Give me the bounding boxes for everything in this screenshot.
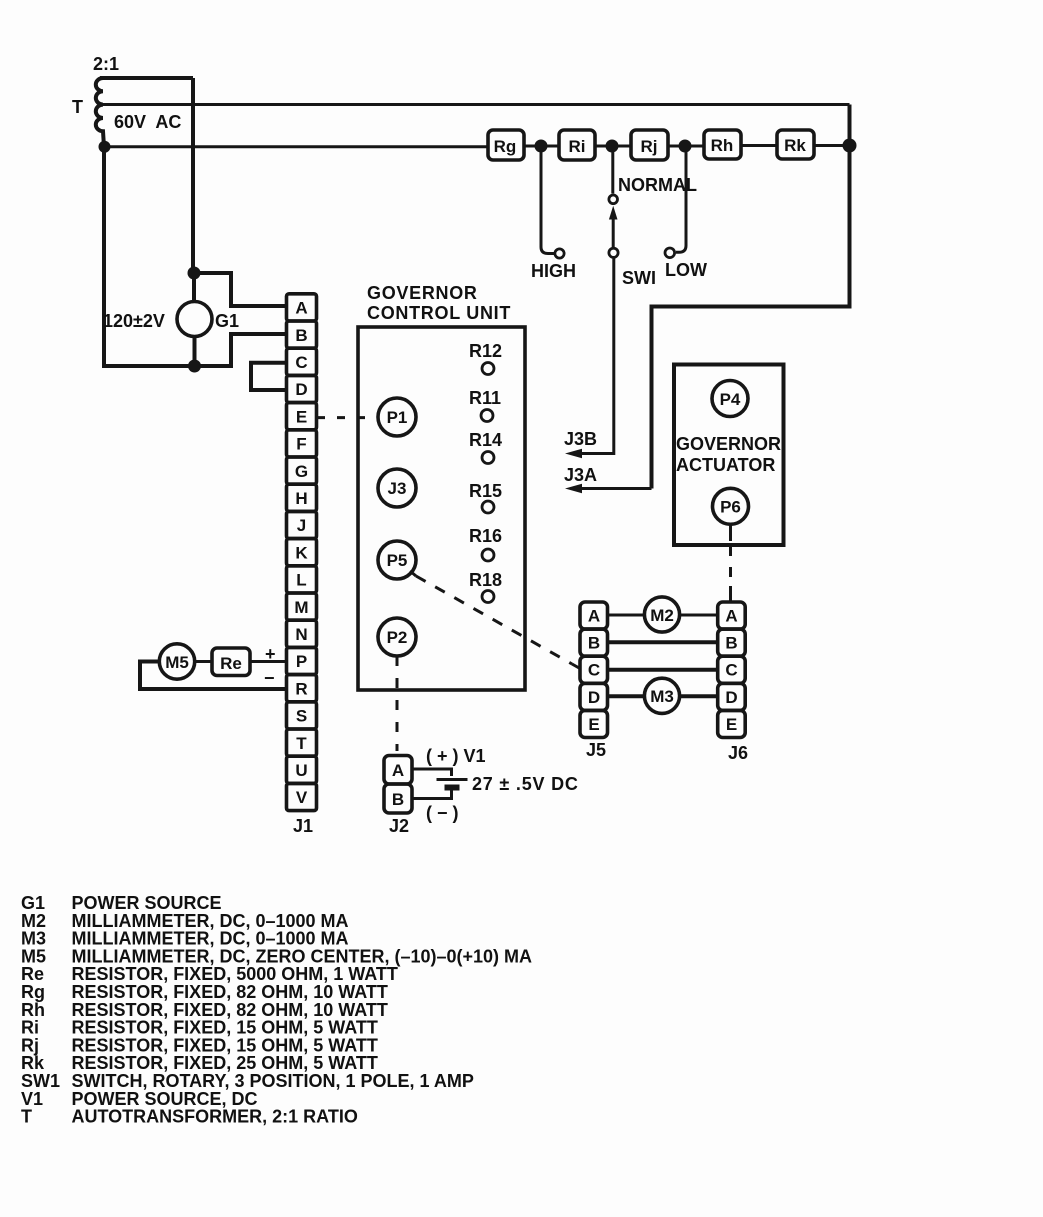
svg-text:GOVERNOR: GOVERNOR — [367, 283, 478, 303]
svg-text:AUTOTRANSFORMER, 2:1 RATIO: AUTOTRANSFORMER, 2:1 RATIO — [72, 1107, 358, 1127]
contact HIGH — [555, 249, 564, 258]
wire G1 bottom to J1-B — [195, 334, 287, 366]
svg-text:J6: J6 — [728, 743, 748, 763]
svg-text:T: T — [296, 734, 307, 753]
connector J6 strip — [718, 602, 746, 738]
wire J2-A to battery — [412, 769, 452, 776]
svg-text:R: R — [295, 679, 307, 698]
junction dot G1 bottom — [188, 360, 201, 373]
wire M2 to J6-A — [680, 614, 718, 617]
switch SW1 wiper line — [612, 217, 615, 248]
wire M5 left loop to J1-R — [140, 662, 286, 690]
junction dot LOW branch — [679, 140, 692, 153]
wire J2-B to battery — [412, 791, 452, 799]
wire Rj to Rh — [668, 145, 704, 148]
svg-text:+: + — [265, 644, 276, 664]
wire dashed P6 to J6-A — [729, 546, 732, 584]
junction dot G1 top — [188, 267, 201, 280]
wire M5 to Re — [195, 660, 212, 663]
svg-text:A: A — [588, 607, 600, 626]
switch SW1 wiper arrow — [609, 206, 618, 220]
svg-text:SWI: SWI — [622, 268, 656, 288]
svg-text:D: D — [588, 688, 600, 707]
svg-text:B: B — [588, 634, 600, 653]
svg-text:LOW: LOW — [665, 260, 707, 280]
battery V1 positive plate — [437, 778, 468, 781]
wire HIGH branch — [541, 146, 554, 254]
svg-text:M2: M2 — [650, 606, 674, 625]
wire G1 bottom lead — [193, 337, 197, 367]
connector P6 — [713, 488, 749, 524]
svg-text:J5: J5 — [586, 740, 606, 760]
svg-text:B: B — [725, 634, 737, 653]
terminal strip J1 — [287, 294, 317, 811]
wire M3 to J6-D — [680, 694, 718, 698]
wire dashed P5 to J5-C — [410, 571, 416, 576]
svg-text:Rk: Rk — [784, 136, 806, 155]
connector J5 strip — [580, 602, 608, 738]
svg-text:J: J — [297, 516, 306, 535]
wire J5-D to M3 — [608, 694, 645, 698]
junction dot HIGH branch — [535, 140, 548, 153]
contact NORMAL — [609, 195, 618, 204]
switch SW1 wire down to J3B — [578, 258, 614, 454]
connector P5 — [378, 541, 416, 579]
wire Re to J1-P — [250, 660, 286, 663]
wire J5-B to J6-B — [608, 640, 718, 644]
svg-text:R15: R15 — [469, 481, 502, 501]
svg-text:R16: R16 — [469, 526, 502, 546]
svg-text:R18: R18 — [469, 570, 502, 590]
resistor Rh — [704, 130, 741, 159]
svg-text:R11: R11 — [469, 388, 501, 408]
wire dashed P2 to J2-A — [396, 656, 399, 751]
svg-text:U: U — [295, 761, 307, 780]
wire J5-C to J6-C — [608, 668, 718, 672]
wire bottom winding line to Rg — [104, 145, 487, 148]
svg-text:P: P — [296, 652, 307, 671]
svg-text:A: A — [392, 761, 404, 780]
jumper wire J1 C to D — [251, 363, 286, 390]
svg-text:T: T — [72, 97, 83, 117]
svg-text:P6: P6 — [720, 498, 741, 517]
svg-text:27 ± .5V DC: 27 ± .5V DC — [472, 774, 579, 794]
svg-text:L: L — [296, 571, 306, 590]
svg-text:B: B — [295, 326, 307, 345]
svg-text:H: H — [295, 489, 307, 508]
resistor Rk — [777, 130, 814, 159]
generator G1 — [177, 302, 212, 337]
svg-text:F: F — [296, 435, 306, 454]
connector P1 — [378, 398, 416, 436]
svg-text:( − ): ( − ) — [426, 803, 459, 823]
governor actuator box — [674, 365, 784, 546]
svg-text:G1: G1 — [215, 311, 239, 331]
governor control unit box — [358, 327, 525, 690]
svg-text:GOVERNOR: GOVERNOR — [676, 434, 781, 454]
svg-text:Re: Re — [220, 654, 242, 673]
svg-text:Rg: Rg — [494, 137, 517, 156]
battery V1 negative plate — [445, 785, 460, 791]
resistor Re — [212, 648, 250, 676]
svg-text:E: E — [726, 715, 737, 734]
contact SW1 lower — [609, 248, 618, 257]
milliammeter M5 — [159, 644, 194, 679]
wire Rk to right rail — [814, 144, 850, 147]
svg-text:G: G — [295, 462, 308, 481]
svg-text:A: A — [725, 607, 737, 626]
svg-text:60V AC: 60V AC — [114, 112, 181, 132]
svg-text:D: D — [725, 688, 737, 707]
wire G1 top to J1-A — [194, 273, 286, 306]
wire tap 60V AC line to right rail — [98, 103, 850, 106]
svg-text:HIGH: HIGH — [531, 261, 576, 281]
legend — [21, 893, 532, 1127]
svg-text:K: K — [295, 543, 308, 562]
wire J5-A to M2 — [608, 614, 645, 617]
wire Rg to Ri — [524, 145, 559, 148]
svg-text:E: E — [296, 407, 307, 426]
wire P6 lead — [729, 524, 732, 541]
wire J3A horizontal — [578, 487, 652, 490]
junction dot transformer bottom — [99, 141, 111, 153]
svg-text:B: B — [392, 790, 404, 809]
svg-text:R12: R12 — [469, 341, 502, 361]
wire dashed E to P1 — [317, 416, 378, 419]
svg-text:P2: P2 — [387, 628, 408, 647]
wire transformer top — [100, 76, 193, 80]
arrow J3B — [565, 449, 582, 459]
wire right rail vertical — [652, 105, 850, 489]
svg-text:J3A: J3A — [564, 465, 597, 485]
svg-text:S: S — [296, 707, 307, 726]
svg-text:Rj: Rj — [641, 137, 658, 156]
wire Ri to Rj — [595, 145, 631, 148]
connector P2 — [378, 618, 416, 656]
svg-text:V: V — [296, 788, 308, 807]
svg-text:J2: J2 — [389, 816, 409, 836]
svg-text:R14: R14 — [469, 430, 502, 450]
svg-text:M: M — [294, 598, 308, 617]
wire LOW branch — [676, 146, 686, 252]
connector J2 terminal B — [384, 784, 412, 813]
svg-text:P5: P5 — [387, 551, 408, 570]
svg-text:A: A — [295, 299, 307, 318]
svg-text:P4: P4 — [720, 390, 741, 409]
svg-text:Rh: Rh — [711, 136, 734, 155]
resistor Ri — [559, 130, 595, 160]
svg-text:J1: J1 — [293, 816, 313, 836]
svg-text:J3B: J3B — [564, 429, 597, 449]
svg-text:T: T — [21, 1107, 32, 1127]
svg-text:E: E — [588, 715, 599, 734]
svg-text:M3: M3 — [650, 687, 674, 706]
svg-text:Ri: Ri — [569, 137, 586, 156]
svg-text:120±2V: 120±2V — [103, 311, 165, 331]
junction dot right rail — [843, 139, 857, 153]
svg-text:C: C — [588, 661, 600, 680]
svg-text:C: C — [295, 353, 307, 372]
svg-text:M5: M5 — [165, 653, 189, 672]
svg-text:−: − — [264, 668, 275, 688]
wire Rh to Rk — [741, 144, 777, 147]
svg-text:D: D — [295, 380, 307, 399]
svg-text:N: N — [295, 625, 307, 644]
svg-text:C: C — [725, 661, 737, 680]
svg-text:J3: J3 — [388, 479, 407, 498]
switch SW1 wire from junction — [611, 146, 614, 194]
transformer T coil winding — [96, 78, 104, 147]
contact LOW — [665, 248, 675, 258]
wire left vertical from transformer to G1 bottom — [104, 147, 231, 366]
resistor Rg — [488, 130, 524, 160]
junction dot SW1 branch — [606, 140, 619, 153]
resistor Rj — [631, 130, 668, 160]
wire G1 top lead — [192, 273, 196, 302]
svg-text:( + ) V1: ( + ) V1 — [426, 746, 486, 766]
connector P4 — [712, 381, 748, 417]
svg-text:CONTROL UNIT: CONTROL UNIT — [367, 303, 511, 323]
wire transformer right vertical down to G1 — [191, 78, 195, 273]
milliammeter M2 — [644, 597, 679, 632]
milliammeter M3 — [644, 678, 679, 713]
arrow J3A — [565, 484, 582, 494]
svg-text:2:1: 2:1 — [93, 54, 119, 74]
svg-text:ACTUATOR: ACTUATOR — [676, 455, 775, 475]
svg-text:P1: P1 — [387, 408, 408, 427]
connector J2 terminal A — [384, 756, 412, 785]
connector J3 — [378, 469, 416, 507]
